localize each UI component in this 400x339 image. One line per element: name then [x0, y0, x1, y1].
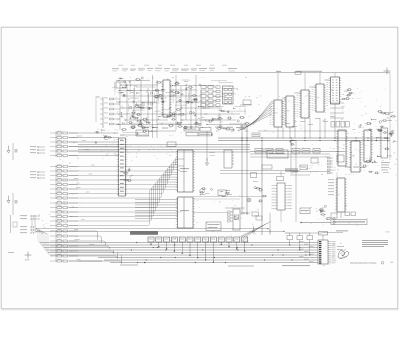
- svg-text:PROCESSOR: PROCESSOR: [350, 262, 366, 265]
- svg-text:330: 330: [164, 98, 167, 100]
- svg-text:U12: U12: [275, 113, 278, 115]
- svg-text:TP3: TP3: [287, 111, 290, 113]
- svg-text:IC7: IC7: [365, 145, 368, 147]
- svg-text:SYSTEM: SYSTEM: [366, 262, 376, 265]
- svg-text:RN2: RN2: [352, 156, 355, 158]
- svg-text:0.1: 0.1: [302, 103, 304, 105]
- svg-text:IC7: IC7: [339, 147, 342, 149]
- svg-text:TB-09: TB-09: [25, 260, 30, 262]
